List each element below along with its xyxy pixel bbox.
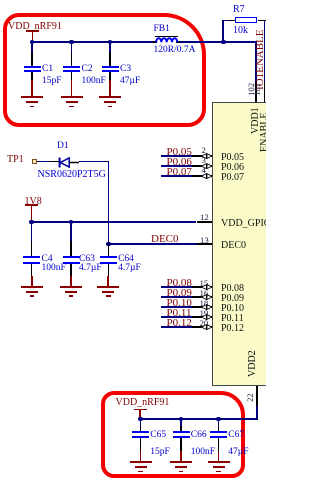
node junction C2 — [69, 40, 74, 45]
pin number 4 — [202, 166, 206, 175]
net label P0.08 — [167, 278, 192, 289]
pin VDD2 (22) below IC — [256, 386, 258, 408]
pin bidirectional arrow — [201, 294, 212, 300]
net label P0.05 — [167, 147, 192, 158]
pin VDD_GPIO (12) — [197, 221, 213, 223]
power port VDD_nRF91 (top) — [8, 22, 62, 32]
pin number 22 (rotated) — [246, 393, 255, 402]
ground (C64) — [107, 276, 109, 287]
pin P0.11 (19) — [161, 316, 192, 318]
ground (C3) — [109, 80, 111, 97]
pin P0.12 (20) — [161, 326, 192, 328]
node junction C3 — [108, 40, 113, 45]
pin bidirectional arrow — [201, 324, 212, 330]
pin number 19 — [200, 309, 209, 318]
wire to pin 102 (VDD1) — [255, 41, 257, 82]
ground (C63) — [70, 276, 72, 287]
node junction C66 — [179, 417, 184, 422]
pin number 18 — [200, 299, 209, 308]
wire to pin 101 (IO1ENABLE) — [264, 21, 266, 83]
capacitor C63 — [70, 221, 72, 241]
pin bidirectional arrow — [201, 304, 212, 310]
net label P0.06 — [167, 157, 192, 168]
ferrite bead FB1 — [153, 41, 157, 43]
wire after FB1 to corner — [179, 41, 257, 43]
capacitor C1 — [31, 41, 33, 52]
diode D1 — [37, 161, 52, 163]
capacitor C64 — [108, 244, 110, 256]
pin name VDD2 (rotated, inside IC) — [248, 350, 258, 377]
pin bidirectional arrow — [201, 284, 212, 290]
pin bidirectional arrow — [201, 153, 212, 159]
net label P0.12 — [167, 318, 192, 329]
pin number 102 (rotated) — [247, 82, 256, 95]
pin number 15 — [200, 279, 209, 288]
net label P0.07 — [167, 167, 192, 178]
capacitor C66 — [180, 418, 182, 426]
pin name VDD1 (rotated, inside IC) — [251, 107, 261, 134]
ground (C65) — [140, 451, 142, 463]
wire D1 cathode run to DEC0 — [79, 161, 109, 163]
ground (C66) — [180, 451, 182, 463]
pin P0.05 (2) — [161, 155, 192, 157]
pin number 12 — [200, 213, 209, 222]
node junction 1V8/C4 — [29, 220, 34, 225]
node junction C67 — [216, 417, 221, 422]
pin name P0.08 — [221, 284, 244, 294]
node junction C1 — [30, 40, 35, 45]
pin bidirectional arrow — [201, 173, 212, 179]
pin number 3 — [202, 156, 206, 165]
test point TP1 — [7, 155, 24, 165]
highlight box top (red rounded rectangle) — [3, 13, 206, 127]
ground (C4) — [31, 276, 33, 287]
node junction DEC0/C64 — [106, 242, 111, 247]
node junction C63 — [69, 220, 74, 225]
net label P0.09 — [167, 288, 192, 299]
wire bottom rail — [140, 418, 258, 420]
pin name P0.09 — [221, 294, 244, 304]
net label P0.10 — [167, 298, 192, 309]
pin P0.07 (4) — [161, 175, 192, 177]
ground (C1) — [31, 80, 33, 97]
pin name P0.11 — [221, 314, 244, 324]
pin name ENABLE pin101 (rotated, inside IC, clipped) — [260, 113, 270, 152]
resistor R7 — [222, 20, 224, 42]
capacitor C4 — [31, 221, 33, 241]
pin number 13 — [200, 236, 209, 245]
net label P0.11 — [167, 308, 192, 319]
power port 1V8 — [25, 197, 42, 207]
pin bidirectional arrow — [201, 314, 212, 320]
pin P0.10 (18) — [161, 306, 192, 308]
pin name P0.07 — [221, 173, 244, 183]
capacitor C2 — [71, 41, 73, 52]
pin number 20 — [200, 319, 209, 328]
pin P0.09 (16) — [161, 296, 192, 298]
wire DEC0 run — [108, 243, 197, 245]
pin number 2 — [202, 146, 206, 155]
pin name P0.05 — [221, 153, 244, 163]
ground (C67) — [218, 451, 220, 463]
ground (C2) — [71, 80, 73, 97]
capacitor C3 — [109, 41, 111, 52]
power port VDD_nRF91 (bottom) — [116, 398, 170, 408]
wire VDD_GPIO rail (1V8) — [31, 221, 197, 223]
pin name VDD_GPIO — [221, 219, 271, 229]
pin number 16 — [200, 289, 209, 298]
capacitor C67 — [218, 418, 220, 426]
capacitor C65 — [140, 418, 142, 426]
wire main top rail — [31, 41, 153, 43]
pin name P0.06 — [221, 163, 244, 173]
net label DEC0 — [151, 234, 179, 245]
pin P0.06 (3) — [161, 165, 192, 167]
IC U1 nRF91 module body — [212, 102, 267, 386]
pin DEC0 (13) — [197, 243, 213, 245]
net label IO1ENABLE (rotated) — [255, 30, 266, 91]
pin bidirectional arrow — [201, 163, 212, 169]
pin P0.08 (15) — [161, 286, 192, 288]
pin name P0.10 — [221, 304, 244, 314]
highlight box bottom (red rounded rectangle) — [101, 391, 245, 478]
node junction C65 — [138, 417, 143, 422]
node junction R7 branch — [221, 40, 226, 45]
pin number 101 (rotated) — [253, 82, 262, 95]
pin name P0.12 — [221, 324, 244, 334]
pin name DEC0 — [221, 241, 246, 251]
